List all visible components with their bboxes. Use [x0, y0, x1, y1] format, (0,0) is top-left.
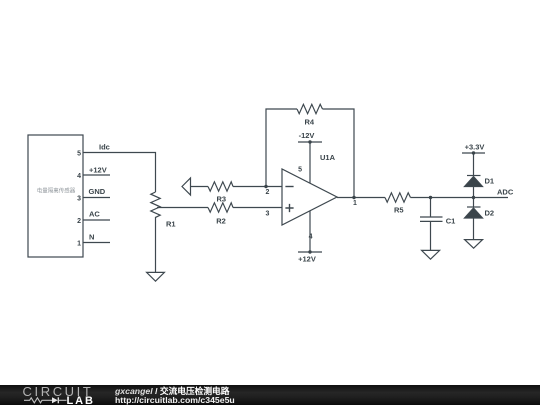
op-amp minus symbol [285, 186, 293, 188]
pin 3 stub wire [83, 197, 110, 199]
svg-text:R1: R1 [166, 220, 176, 229]
svg-text:4: 4 [309, 234, 313, 241]
pin 4 stub wire [83, 174, 110, 176]
pin 1 stub wire [83, 242, 110, 244]
svg-text:1: 1 [77, 241, 81, 248]
svg-text:-12V: -12V [299, 131, 315, 140]
svg-text:ADC: ADC [497, 188, 514, 197]
svg-text:2: 2 [266, 189, 270, 196]
+3.3V power bar [462, 152, 485, 154]
diode D1 anode lead [473, 187, 475, 198]
diode D1 cathode bar [467, 175, 481, 177]
wire R5 to C1 node [411, 197, 431, 199]
resistor R4 [297, 104, 323, 113]
-12V power bar [298, 141, 322, 143]
svg-text:Idc: Idc [99, 143, 110, 152]
diode D2 body [465, 208, 483, 218]
svg-text:2: 2 [77, 218, 81, 225]
+12V power bar [298, 251, 322, 253]
op-amp U1A triangle [282, 169, 337, 225]
ground G1 [147, 272, 165, 281]
wire R1 bottom to ground [155, 219, 157, 272]
svg-text:3: 3 [77, 196, 81, 203]
wire pin2 node up to R4 [266, 109, 297, 187]
ground G3 [465, 240, 483, 249]
wire R1 tap to R2 [157, 207, 208, 209]
svg-text:1: 1 [353, 200, 357, 207]
resistor R1 (vertical) [151, 192, 160, 219]
svg-text:5: 5 [77, 151, 81, 158]
resistor R5 [385, 193, 411, 202]
resistor R2 [208, 203, 233, 212]
junction node pin2 [264, 185, 267, 188]
junction node +3.3V [472, 151, 475, 154]
junction node output 1 [352, 196, 355, 199]
svg-text:R4: R4 [305, 118, 315, 127]
logo resistor squiggle [24, 398, 52, 403]
pin 4 power wire [309, 211, 311, 252]
diode D1 body [465, 177, 483, 187]
svg-text:R2: R2 [216, 217, 226, 226]
wire C1 node to ADC node [431, 197, 474, 199]
svg-text:R3: R3 [217, 195, 227, 204]
pin 5 stub wire [83, 152, 110, 154]
op-amp plus symbol [285, 204, 293, 212]
svg-text:+12V: +12V [89, 166, 107, 175]
svg-text:+3.3V: +3.3V [465, 143, 485, 152]
diode D2 cathode lead [473, 198, 475, 208]
svg-text:+12V: +12V [298, 255, 316, 264]
svg-text:U1A: U1A [320, 153, 336, 162]
pin 5 power wire [309, 142, 311, 183]
junction node ADC [472, 196, 475, 199]
footer bar [0, 385, 540, 405]
wire R4 to output node [323, 109, 355, 198]
wire R2 to op-amp pin3 [233, 207, 282, 209]
sensor box U2 电量隔离传感器 [28, 135, 83, 257]
svg-text:5: 5 [298, 167, 302, 174]
svg-text:R5: R5 [394, 206, 404, 215]
svg-text:N: N [89, 233, 94, 242]
logo diode symbol [52, 397, 58, 403]
junction node -12V [308, 140, 311, 143]
svg-text:3: 3 [266, 210, 270, 217]
svg-text:4: 4 [77, 173, 81, 180]
capacitor C1 bottom lead [430, 221, 432, 250]
wire Idc from pin5 to R1 top [110, 153, 156, 193]
svg-text:LAB: LAB [67, 395, 95, 405]
ground G2 [422, 250, 440, 259]
svg-text:D1: D1 [485, 177, 495, 186]
pin 2 stub wire [83, 219, 110, 221]
junction node +12V [308, 250, 311, 253]
svg-text:D2: D2 [485, 209, 495, 218]
diode D2 cathode bar [467, 206, 481, 208]
capacitor C1 top lead [430, 198, 432, 218]
footer credit line [115, 387, 235, 405]
wire R3 to pin2 node [233, 186, 282, 188]
junction node C1 [429, 196, 432, 199]
resistor R3 [208, 182, 233, 191]
wire ADC [474, 197, 509, 199]
svg-text:C1: C1 [446, 217, 456, 226]
svg-text:AC: AC [89, 210, 100, 219]
svg-text:电量隔离传感器: 电量隔离传感器 [37, 187, 76, 195]
net flag arrow (input) [182, 178, 191, 195]
diode D2 anode lead [473, 218, 475, 240]
output wire pin1 to R5 [337, 197, 385, 199]
capacitor C1 plates [420, 217, 443, 221]
svg-text:GND: GND [89, 187, 106, 196]
wire +3.3V to D1 [473, 153, 475, 176]
wire arrow to R3 [191, 186, 209, 188]
